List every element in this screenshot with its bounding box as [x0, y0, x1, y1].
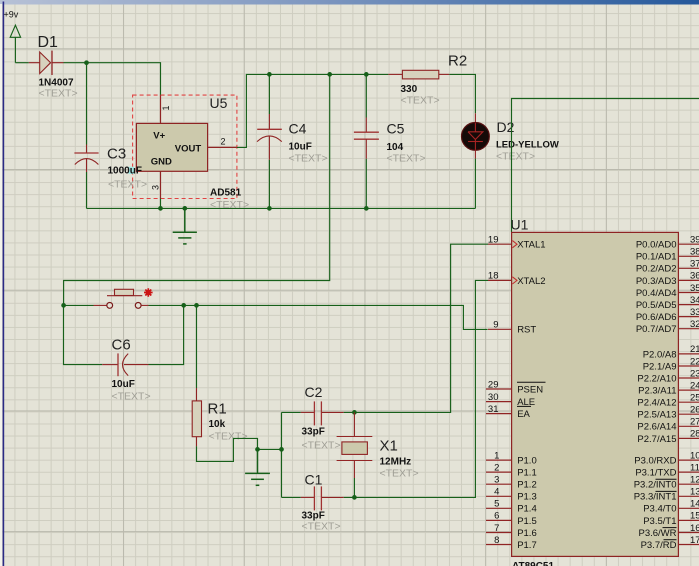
U1 clock input chevrons	[512, 241, 517, 284]
wire button right to RST	[149, 305, 488, 329]
U1 right pin labels	[634, 240, 677, 551]
svg-text:P2.2/A10: P2.2/A10	[637, 373, 676, 384]
LED D2	[462, 113, 559, 162]
svg-text:12MHz: 12MHz	[380, 457, 412, 468]
U1 overlines PSEN EA INT0 INT1 WR RD	[517, 382, 677, 539]
svg-text:P3.6/WR: P3.6/WR	[638, 528, 676, 539]
capacitor C1	[301, 472, 344, 533]
svg-text:D1: D1	[38, 34, 59, 51]
svg-text:AD581: AD581	[210, 188, 242, 199]
wire R2 to D2	[449, 74, 475, 113]
pin 1 of U5	[161, 95, 172, 123]
svg-text:<TEXT>: <TEXT>	[112, 391, 151, 403]
capacitor C2	[301, 384, 344, 452]
resistor R2	[388, 53, 467, 107]
svg-text:XTAL2: XTAL2	[517, 276, 545, 287]
wire link to cap column	[258, 448, 282, 450]
crystal X1	[337, 412, 419, 479]
svg-text:10uF: 10uF	[289, 142, 312, 153]
node button left junction	[61, 303, 66, 308]
svg-text:3: 3	[151, 185, 161, 190]
wire top right to U1 corner	[512, 99, 699, 233]
svg-text:PSEN: PSEN	[517, 384, 543, 395]
svg-text:32: 32	[690, 319, 699, 330]
svg-text:<TEXT>: <TEXT>	[210, 199, 249, 211]
svg-text:37: 37	[690, 259, 699, 270]
svg-text:13: 13	[690, 487, 699, 498]
svg-text:C3: C3	[107, 146, 126, 163]
window top bar	[0, 0, 699, 5]
node gnd rail junction	[182, 206, 187, 211]
wire +9v to D1	[15, 62, 28, 64]
wire C2 row left	[282, 411, 301, 413]
svg-text:30: 30	[488, 392, 499, 403]
svg-text:<TEXT>: <TEXT>	[39, 88, 78, 100]
pin 2 of U5	[208, 137, 237, 148]
svg-text:5: 5	[494, 499, 499, 510]
wire C3 to ground rail	[86, 172, 88, 208]
svg-text:U1: U1	[511, 217, 529, 233]
svg-text:21: 21	[690, 344, 699, 355]
svg-text:VOUT: VOUT	[175, 143, 202, 154]
svg-text:104: 104	[387, 142, 404, 153]
U1 left pin numbers	[488, 235, 499, 546]
svg-text:C4: C4	[289, 121, 307, 137]
svg-text:P2.3/A11: P2.3/A11	[638, 386, 676, 397]
ground rail wire	[87, 207, 476, 209]
svg-text:330: 330	[401, 84, 418, 95]
svg-text:17: 17	[690, 535, 699, 546]
svg-text:1000uF: 1000uF	[108, 166, 142, 177]
svg-text:P2.6/A14: P2.6/A14	[637, 422, 676, 433]
svg-text:XTAL1: XTAL1	[517, 240, 545, 251]
svg-text:R2: R2	[448, 53, 467, 70]
svg-text:9: 9	[493, 320, 498, 331]
node C5 top junction	[364, 72, 369, 77]
svg-text:EA: EA	[517, 409, 530, 420]
svg-text:33: 33	[690, 307, 699, 318]
svg-text:25: 25	[690, 393, 699, 404]
svg-text:P1.3: P1.3	[517, 492, 537, 503]
wire C1 row left	[282, 496, 301, 498]
capacitor C5	[354, 118, 426, 165]
svg-text:C6: C6	[112, 337, 131, 354]
svg-text:P1.7: P1.7	[517, 540, 537, 551]
svg-text:26: 26	[690, 405, 699, 416]
svg-text:3: 3	[494, 475, 499, 486]
svg-text:P3.0/RXD: P3.0/RXD	[634, 455, 676, 466]
U1 right pin numbers	[690, 235, 699, 546]
svg-text:P0.6/AD6: P0.6/AD6	[636, 312, 677, 323]
svg-text:C1: C1	[305, 472, 323, 488]
capacitor C3 value labels	[108, 166, 148, 191]
svg-text:P1.4: P1.4	[517, 504, 537, 515]
svg-text:U5: U5	[210, 95, 228, 111]
svg-text:<TEXT>: <TEXT>	[289, 153, 328, 165]
wire D1 to junction and U5 pin1 drop	[64, 63, 161, 95]
svg-text:35: 35	[690, 283, 699, 294]
svg-text:P0.5/AD5: P0.5/AD5	[636, 300, 677, 311]
svg-text:14: 14	[690, 499, 699, 510]
svg-text:LED-YELLOW: LED-YELLOW	[496, 140, 559, 151]
svg-text:1: 1	[161, 105, 171, 110]
svg-text:<TEXT>: <TEXT>	[387, 153, 426, 165]
svg-text:<TEXT>: <TEXT>	[302, 521, 341, 533]
svg-text:P3.7/RD: P3.7/RD	[641, 540, 677, 551]
node X1 bottom junction	[352, 495, 357, 500]
svg-text:39: 39	[690, 235, 699, 246]
U1 left pin stubs unconnected and P1	[486, 389, 512, 545]
svg-text:P0.4/AD4: P0.4/AD4	[636, 288, 677, 299]
svg-text:28: 28	[690, 429, 699, 440]
svg-text:P0.1/AD1: P0.1/AD1	[636, 252, 677, 263]
svg-text:V+: V+	[153, 130, 165, 141]
wire U5 pin2 VOUT up to top rail	[237, 74, 389, 147]
svg-text:P0.7/AD7: P0.7/AD7	[636, 324, 677, 335]
wire C4 bottom to rail	[268, 160, 270, 209]
svg-text:P2.0/A8: P2.0/A8	[643, 349, 677, 360]
svg-text:2: 2	[494, 462, 499, 473]
svg-text:P1.5: P1.5	[517, 516, 537, 527]
capacitor C6	[102, 337, 150, 403]
U1 left pin labels	[517, 240, 545, 551]
node X1 top junction	[352, 410, 357, 415]
svg-text:22: 22	[690, 356, 699, 367]
svg-text:24: 24	[690, 380, 699, 391]
svg-text:10: 10	[690, 450, 699, 461]
diode D1	[29, 34, 78, 100]
svg-text:10uF: 10uF	[112, 379, 135, 390]
wire C1 row to XTAL2 riser	[344, 280, 488, 497]
svg-text:10k: 10k	[209, 419, 226, 430]
svg-text:P2.4/A12: P2.4/A12	[637, 398, 676, 409]
microcontroller U1 AT89C51	[511, 217, 679, 566]
svg-text:R1: R1	[208, 401, 227, 418]
capacitor C4	[257, 114, 328, 165]
node cap column junction	[279, 447, 284, 452]
wire reset riser down and across to button column	[64, 74, 330, 305]
U1 right pin stubs	[679, 244, 699, 544]
svg-text:19: 19	[488, 235, 499, 246]
svg-text:8: 8	[494, 535, 499, 546]
svg-text:1: 1	[494, 450, 499, 461]
svg-text:X1: X1	[380, 438, 398, 455]
svg-text:P3.5/T1: P3.5/T1	[643, 516, 676, 527]
svg-text:33pF: 33pF	[302, 427, 325, 438]
wire X1 bottom to C1 row	[353, 478, 355, 497]
svg-text:38: 38	[690, 247, 699, 258]
wire C5 top lead	[365, 74, 367, 117]
ground symbol left	[173, 208, 197, 244]
node C4 bottom junction	[267, 206, 272, 211]
wire C2 row to XTAL1 riser	[344, 244, 488, 412]
node C5 bottom junction	[364, 206, 369, 211]
svg-text:P1.1: P1.1	[517, 468, 537, 479]
svg-text:P0.2/AD2: P0.2/AD2	[636, 264, 677, 275]
node R1 branch junction	[194, 303, 199, 308]
svg-text:P3.1/TXD: P3.1/TXD	[635, 468, 676, 479]
svg-text:C2: C2	[305, 384, 323, 400]
svg-text:P1.0: P1.0	[517, 455, 537, 466]
svg-text:P2.5/A13: P2.5/A13	[637, 410, 676, 421]
svg-text:<TEXT>: <TEXT>	[380, 468, 419, 480]
svg-text:34: 34	[690, 295, 699, 306]
svg-text:31: 31	[488, 404, 499, 415]
svg-text:P0.3/AD3: P0.3/AD3	[636, 276, 677, 287]
node C6 branch junction	[181, 303, 186, 308]
svg-text:P2.7/A15: P2.7/A15	[637, 434, 676, 445]
svg-text:4: 4	[494, 487, 499, 498]
svg-text:36: 36	[690, 271, 699, 282]
op-amp U5 regulator AD581	[133, 95, 250, 211]
svg-text:<TEXT>: <TEXT>	[108, 179, 147, 191]
pin 3 of U5	[151, 171, 161, 198]
node reset riser top junction	[327, 72, 332, 77]
capacitor C3	[74, 145, 126, 173]
U1 left pin stubs connected	[488, 244, 512, 329]
ground symbol right	[245, 449, 270, 485]
wire R1 bottom zigzag to ground node	[197, 438, 258, 461]
node pin3 rail junction	[158, 206, 163, 211]
svg-text:<TEXT>: <TEXT>	[302, 440, 341, 452]
wire C6 loop	[64, 305, 184, 364]
wire D2 cathode to ground rail	[474, 159, 476, 209]
svg-text:11: 11	[690, 462, 699, 473]
svg-text:7: 7	[494, 523, 499, 534]
resistor R1	[192, 388, 247, 446]
svg-text:<TEXT>: <TEXT>	[209, 431, 248, 443]
svg-text:2: 2	[221, 137, 226, 147]
svg-text:+9v: +9v	[4, 10, 19, 20]
push button	[94, 288, 153, 308]
wire U5 pin3 to rail	[160, 199, 162, 209]
svg-text:P1.2: P1.2	[517, 480, 537, 491]
wire C4 top lead	[268, 74, 270, 114]
svg-text:15: 15	[690, 511, 699, 522]
svg-text:P3.4/T0: P3.4/T0	[643, 504, 676, 515]
wire button row left green	[64, 304, 94, 306]
node C4 top junction	[267, 72, 272, 77]
svg-text:12: 12	[690, 475, 699, 486]
node ground junction	[255, 447, 260, 452]
svg-text:P3.2/INT0: P3.2/INT0	[634, 480, 677, 491]
svg-text:16: 16	[690, 523, 699, 534]
node junction at D1/C3	[84, 60, 89, 65]
svg-text:23: 23	[690, 368, 699, 379]
svg-text:<TEXT>: <TEXT>	[401, 95, 440, 107]
svg-text:P1.6: P1.6	[517, 528, 537, 539]
wire R1 top lead	[196, 305, 198, 388]
svg-text:18: 18	[488, 271, 499, 282]
svg-text:C5: C5	[387, 121, 405, 137]
wire C5 bottom to rail	[365, 159, 367, 209]
power arrow symbol	[10, 25, 20, 63]
svg-text:27: 27	[690, 417, 699, 428]
svg-text:P0.0/AD0: P0.0/AD0	[636, 240, 677, 251]
svg-text:AT89C51: AT89C51	[512, 561, 554, 566]
window left edge line	[0, 4, 2, 566]
svg-text:GND: GND	[151, 157, 172, 168]
svg-text:P3.3/INT1: P3.3/INT1	[634, 492, 677, 503]
wire junction down to C3	[86, 63, 88, 145]
svg-text:RST: RST	[517, 325, 536, 336]
svg-text:P2.1/A9: P2.1/A9	[643, 361, 677, 372]
wire caps left column	[281, 412, 283, 497]
svg-text:6: 6	[494, 511, 499, 522]
svg-text:<TEXT>: <TEXT>	[496, 151, 535, 163]
svg-text:29: 29	[488, 379, 499, 390]
